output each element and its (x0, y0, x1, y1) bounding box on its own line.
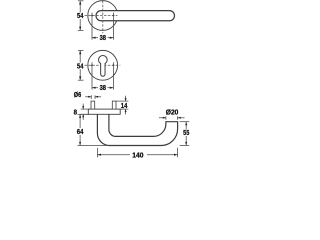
extension line left screw (escutcheon) (91, 69, 93, 90)
escutcheon circle (88, 50, 118, 80)
dimension 38 (top view) (92, 35, 113, 42)
svg-text:54: 54 (77, 63, 83, 70)
dimension 8 (side view) (74, 104, 89, 120)
svg-text:140: 140 (132, 152, 143, 159)
lever grip (stadium outline, front view) (96, 11, 175, 21)
svg-text:8: 8 (74, 110, 77, 117)
extension line right screw (escutcheon) (112, 69, 114, 90)
rosette circle (front view) (88, 1, 118, 31)
svg-text:55: 55 (183, 130, 189, 137)
horizontal dashed centerline (top view) (85, 15, 118, 17)
svg-text:54: 54 (77, 13, 83, 20)
svg-text:14: 14 (121, 103, 128, 110)
dimension 38 (escutcheon) (92, 85, 113, 92)
vertical dashed centerline (top view) (102, 1, 104, 33)
dimension 54 (top view) (76, 1, 84, 31)
right stud (side view) (112, 101, 116, 109)
dimension 55 (side view) (180, 122, 190, 146)
dimension 14 (side view) (116, 96, 128, 115)
horizontal dashed centerline (escutcheon) (85, 64, 121, 66)
europrofile keyhole (99, 55, 108, 76)
dimension 140 (side view) (97, 148, 177, 160)
screw hole mark right (escutcheon) (112, 62, 115, 68)
screw hole mark left (top view) (91, 13, 94, 19)
extension line left screw (top view) (91, 19, 93, 40)
dimension 54 (escutcheon) (76, 50, 84, 80)
dimension 64 (side view) (76, 114, 107, 145)
extension line right screw (top view) (112, 19, 114, 40)
left stud (side view) (91, 101, 95, 109)
dimension Ø6 (side view) (74, 92, 101, 99)
svg-text:38: 38 (100, 85, 106, 92)
svg-text:Ø6: Ø6 (74, 92, 81, 99)
screw hole mark right (top view) (112, 13, 115, 19)
dimension Ø20 (side view) (159, 109, 185, 119)
handle profile outline (side view) (97, 114, 177, 145)
screw hole mark left (escutcheon) (91, 62, 94, 68)
rose plate (side view) (88, 109, 120, 114)
svg-text:Ø20: Ø20 (166, 109, 179, 116)
svg-text:64: 64 (77, 129, 84, 136)
svg-text:38: 38 (100, 35, 106, 42)
